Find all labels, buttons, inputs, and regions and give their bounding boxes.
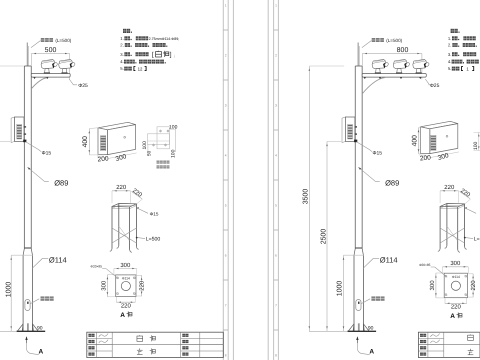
svg-text:Φ15: Φ15 — [42, 150, 52, 156]
svg-text:220: 220 — [470, 280, 477, 291]
svg-text:5: 5 — [275, 204, 277, 208]
note 1 material — [120, 36, 179, 41]
lightning rod — [27, 43, 28, 67]
baseplate center hole Φ114 — [121, 281, 130, 290]
cabinet mounting bolts — [354, 126, 357, 142]
dimension 220 cage diagonal — [131, 187, 144, 204]
dim 220 bottom — [445, 298, 467, 311]
svg-text:300: 300 — [120, 262, 131, 269]
sheet2 dimension 1000 — [337, 255, 364, 331]
svg-text:2.75mmΦ114-Φ89;: 2.75mmΦ114-Φ89; — [149, 37, 180, 41]
title block table — [418, 332, 480, 357]
dimension 220 cage top — [112, 184, 131, 203]
label Φ25 on arm end — [425, 79, 439, 89]
title block row labels — [88, 334, 188, 356]
svg-text:400: 400 — [411, 135, 418, 147]
note 3 color — [120, 51, 175, 59]
cabinet detail 3D box — [98, 122, 136, 154]
base gussets and anchor — [18, 323, 39, 331]
svg-text:7: 7 — [225, 304, 227, 308]
svg-text:Φ15: Φ15 — [150, 212, 159, 217]
label Ø114 — [32, 255, 66, 268]
svg-text:300: 300 — [450, 260, 461, 267]
svg-text:400: 400 — [82, 136, 89, 148]
label Φ15 cage — [465, 207, 476, 213]
svg-text:1000: 1000 — [6, 282, 13, 298]
sheet1 offcanvas dim extension pole top — [0, 65, 24, 67]
cabinet detail 3D box — [420, 121, 458, 153]
svg-text:4: 4 — [275, 154, 277, 158]
svg-text:300: 300 — [101, 280, 108, 291]
view arrow A — [25, 336, 43, 355]
label Φ15 cabinet bolt — [26, 142, 52, 157]
svg-text:L=500: L=500 — [474, 236, 480, 242]
svg-text:4.: 4. — [120, 59, 124, 64]
baseplate corner holes — [445, 275, 467, 296]
camera 1 — [372, 59, 389, 73]
base plate — [17, 330, 46, 332]
svg-text:3.: 3. — [120, 52, 124, 57]
access door — [356, 300, 361, 311]
label A向 — [450, 313, 462, 321]
label access door 检修门 — [30, 296, 53, 303]
svg-text:Ø89: Ø89 — [385, 179, 399, 188]
note 2 surface — [120, 43, 167, 48]
svg-text:Φ20×85: Φ20×85 — [419, 263, 431, 267]
svg-text:Ø114: Ø114 — [380, 255, 398, 264]
svg-text:220: 220 — [444, 184, 455, 191]
cage top frame — [440, 204, 464, 209]
svg-text:2500: 2500 — [320, 229, 327, 245]
sheet1 dimension 1000 — [6, 255, 33, 331]
drawing frame border band — [268, 0, 278, 360]
svg-text:1.: 1. — [120, 36, 124, 41]
sheet1 ground line — [0, 330, 16, 332]
svg-text:A: A — [450, 313, 455, 320]
cage cross braces — [112, 226, 136, 243]
dimension 300 — [108, 153, 136, 163]
dim 220 right — [136, 275, 145, 296]
dimension 200 — [419, 154, 431, 162]
camera 3 — [413, 59, 430, 73]
dim 300 top — [442, 260, 468, 273]
svg-text:5.: 5. — [448, 66, 452, 71]
svg-text:800: 800 — [397, 47, 409, 54]
cage cross braces — [440, 226, 464, 243]
svg-text:100: 100 — [171, 149, 177, 158]
svg-text:A: A — [120, 312, 125, 319]
svg-text:1.: 1. — [448, 36, 452, 41]
label L=500 cage — [136, 236, 161, 242]
cabinet detail vent — [431, 135, 436, 150]
title 名称 — [468, 334, 474, 354]
svg-text:220: 220 — [451, 304, 462, 311]
svg-text:1: 1 — [275, 4, 277, 8]
baseplate corner holes — [117, 277, 136, 295]
cage legs — [110, 204, 139, 253]
svg-text:100: 100 — [169, 125, 178, 131]
label Ø89 — [28, 167, 69, 188]
svg-text:3.: 3. — [448, 52, 452, 57]
svg-text:2: 2 — [225, 54, 227, 58]
clamp marks under arm — [364, 77, 422, 79]
camera cross arm — [31, 74, 70, 78]
svg-text:Ø89: Ø89 — [54, 179, 68, 188]
label Φ25 on arm end — [69, 79, 88, 89]
svg-text:2.: 2. — [120, 43, 124, 48]
hole pattern caption — [157, 161, 170, 169]
label Φ20x85 bolts — [419, 263, 446, 277]
label lightning-rod 避雷针(L=500) — [31, 38, 72, 48]
svg-text:7: 7 — [275, 304, 277, 308]
dimension arm length — [31, 47, 69, 79]
equipment cabinet on pole — [342, 117, 355, 143]
pole joint sleeve — [354, 247, 363, 255]
dimension 200 — [97, 155, 109, 163]
camera 2 — [59, 59, 76, 73]
cabinet detail knob — [446, 135, 448, 137]
svg-text:3: 3 — [225, 104, 227, 108]
camera cross arm — [362, 74, 426, 78]
base gussets and anchor — [348, 323, 369, 331]
svg-text:Φ114: Φ114 — [452, 275, 460, 279]
svg-text:5: 5 — [225, 204, 227, 208]
svg-text:200: 200 — [97, 155, 109, 163]
note 5 quantity — [448, 66, 474, 71]
label Φ20x85 bolts — [90, 265, 117, 279]
cabinet detail knob — [124, 136, 126, 138]
title block signatures — [430, 333, 439, 343]
baseplate center hole Φ114 — [451, 281, 460, 290]
cabinet detail vent — [101, 136, 106, 151]
svg-text:Φ25: Φ25 — [430, 83, 440, 89]
dim 300 top — [114, 262, 137, 275]
sheet2 dimension 2500 — [320, 142, 341, 332]
svg-text:Φ114: Φ114 — [122, 277, 130, 281]
svg-text:300: 300 — [429, 280, 436, 291]
baseplate square (view A) — [116, 275, 136, 297]
svg-text:2.: 2. — [448, 43, 452, 48]
lightning rod — [358, 43, 359, 67]
svg-text:4.: 4. — [448, 59, 452, 64]
dimension 400 — [82, 128, 104, 155]
label Ø114 — [363, 255, 397, 268]
cage top frame — [112, 204, 136, 209]
svg-text:(L=500): (L=500) — [386, 38, 402, 43]
svg-text:Ø114: Ø114 — [49, 255, 67, 264]
svg-text:[: [ — [152, 51, 154, 58]
cage legs — [438, 204, 467, 253]
access door — [25, 300, 30, 311]
mounting hole pattern detail (clipped) — [473, 132, 480, 150]
svg-text:1000: 1000 — [337, 281, 344, 297]
pole lower section Φ114 — [354, 255, 363, 331]
sheet1 offcanvas dim extension cabinet bottom — [0, 141, 10, 143]
label access door 检修门 — [361, 296, 384, 303]
dimension 300 — [431, 152, 459, 162]
svg-text:90: 90 — [37, 325, 43, 331]
dimension 400 — [411, 127, 426, 154]
note 4 brand — [120, 59, 165, 64]
equipment cabinet on pole — [11, 117, 24, 143]
note 3 color — [448, 52, 476, 57]
camera 1 — [41, 59, 58, 73]
svg-text:220: 220 — [139, 280, 146, 291]
cabinet vent hatch — [17, 124, 22, 139]
svg-text:100: 100 — [142, 141, 148, 150]
svg-text:500: 500 — [45, 47, 57, 54]
view arrow A — [356, 336, 374, 355]
svg-text:50: 50 — [146, 150, 151, 156]
arm support brace — [362, 78, 385, 94]
svg-text:1: 1 — [225, 4, 227, 8]
pole joint sleeve — [23, 247, 32, 255]
svg-text:A: A — [369, 348, 374, 355]
svg-text:220: 220 — [116, 184, 127, 191]
svg-text:Φ15: Φ15 — [373, 150, 383, 156]
arm support brace — [31, 78, 47, 89]
svg-text:;: ; — [174, 53, 175, 58]
cabinet vent hatch — [348, 124, 353, 139]
dimension 220 cage diagonal — [459, 187, 472, 204]
base plate — [348, 330, 377, 332]
mounting hole pattern detail — [148, 127, 176, 156]
svg-text:]: ] — [170, 51, 172, 58]
label Φ15 cabinet bolt — [357, 142, 383, 157]
note 5 quantity — [120, 66, 146, 71]
title 名称 — [137, 335, 155, 354]
svg-text:L=500: L=500 — [146, 236, 161, 242]
svg-text:3500: 3500 — [302, 189, 309, 205]
dim 300 left — [429, 273, 444, 298]
svg-text:Φ25: Φ25 — [78, 83, 88, 89]
dim 220 bottom — [116, 297, 135, 310]
svg-text:2: 2 — [275, 54, 277, 58]
pole upper section Φ89 — [355, 66, 362, 249]
sheet2 dimension 3500 — [302, 66, 344, 331]
note 4 brand — [448, 59, 479, 64]
title block row labels — [420, 334, 426, 356]
notes heading 说明 — [123, 29, 132, 33]
svg-text:Φ20×85: Φ20×85 — [90, 265, 102, 269]
drawing frame border band — [223, 0, 233, 360]
pole lower section Φ114 — [23, 255, 32, 331]
title block signatures — [99, 333, 108, 343]
svg-text:8: 8 — [225, 354, 227, 358]
notes heading 说明 — [451, 29, 460, 33]
svg-text:8: 8 — [275, 354, 277, 358]
dimension arm length — [362, 47, 422, 79]
label L=500 cage — [464, 236, 480, 242]
camera 2 — [393, 59, 410, 73]
svg-text:100: 100 — [473, 141, 479, 150]
svg-text:6: 6 — [225, 254, 227, 258]
title block table — [87, 332, 224, 357]
label A向 — [120, 311, 132, 319]
svg-text:3: 3 — [275, 104, 277, 108]
svg-text:12: 12 — [138, 66, 143, 71]
svg-text:6: 6 — [275, 254, 277, 258]
sheet2 ground line — [309, 330, 347, 332]
note 2 surface — [448, 43, 477, 48]
cabinet mounting bolts — [23, 126, 26, 142]
note 1 material — [448, 36, 476, 41]
svg-text:200: 200 — [420, 154, 432, 162]
dimension 220 cage top — [440, 184, 459, 203]
clamp marks under arm — [33, 77, 48, 79]
svg-text:4: 4 — [225, 154, 227, 158]
dim 300 left — [101, 275, 116, 297]
svg-text:5.: 5. — [120, 66, 124, 71]
svg-text:(L=500): (L=500) — [55, 38, 71, 43]
dim 220 right — [468, 274, 477, 298]
pole upper section Φ89 — [24, 66, 31, 249]
svg-text:A: A — [38, 348, 43, 355]
svg-text:90: 90 — [368, 325, 374, 331]
label Φ15 cage — [137, 207, 159, 216]
label Ø89 — [358, 167, 399, 188]
baseplate square (view A) — [444, 273, 467, 298]
svg-text:220: 220 — [121, 302, 132, 309]
label lightning-rod 避雷针(L=500) — [362, 38, 403, 48]
